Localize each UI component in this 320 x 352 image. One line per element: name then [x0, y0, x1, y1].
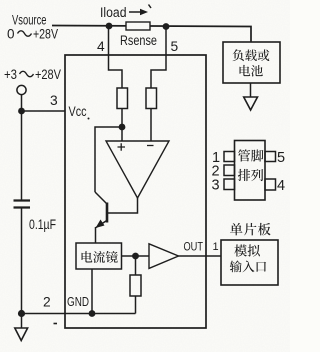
MCU analog input box — [221, 240, 278, 285]
transistor Q1 — [106, 203, 109, 223]
artifact tick — [149, 5, 152, 9]
wire: pin 4 to R1 — [109, 26, 123, 88]
pin 3 pad — [224, 179, 235, 190]
label shurukou — [230, 260, 242, 272]
node: Rsense right junction — [163, 23, 170, 30]
wire: load box to ground — [250, 83, 252, 97]
label danpianban — [230, 223, 243, 235]
resistor Rsense — [126, 22, 150, 30]
IC boundary box U1 — [65, 55, 206, 328]
load/battery box — [223, 42, 280, 83]
label moni — [234, 244, 247, 256]
pin 2 pad — [224, 165, 235, 176]
node: Vcc branch — [18, 108, 25, 115]
ground symbol left — [15, 328, 28, 341]
artifact dash — [54, 323, 58, 325]
wire: OUT pin 1 — [179, 255, 222, 257]
wire: terminal to node — [21, 95, 23, 111]
label dianchi — [240, 65, 251, 76]
wire: capacitor to ground rail — [21, 209, 23, 314]
resistor R2 — [146, 88, 157, 109]
label guanjiao — [238, 149, 250, 161]
current mirror box — [76, 243, 122, 269]
buffer amp U1B — [149, 244, 179, 269]
wire: R3 to GND rail — [135, 296, 137, 314]
pin 5 pad — [265, 152, 276, 162]
capacitor C1 plates — [14, 199, 31, 201]
ground symbol load — [244, 97, 258, 110]
node: ground junction — [18, 310, 25, 317]
pin 4 pad — [265, 179, 276, 190]
label pailie — [238, 169, 250, 181]
wire: R1 to op-amp + input — [121, 109, 123, 142]
wire: stub to ground symbol — [21, 314, 23, 329]
wire: collector to + input node — [95, 127, 122, 192]
op-amp U1A — [106, 141, 169, 198]
wire: node down to R3 — [135, 256, 137, 275]
wire: node down to capacitor — [21, 111, 23, 200]
pin 1 pad — [224, 152, 235, 162]
wire: Vsource supply rail to load — [52, 26, 251, 43]
wire: GND rail to pin 2 — [22, 313, 136, 315]
wire: mirror bottom to GND rail — [91, 269, 93, 314]
terminal circle — [17, 85, 26, 94]
resistor R3 — [130, 275, 141, 296]
label fuzai huo — [233, 49, 244, 61]
node: + input / collector junction — [119, 124, 126, 131]
resistor R1 — [117, 88, 128, 109]
wire: R2 to op-amp - input — [150, 109, 152, 142]
wire: emitter to current mirror — [95, 227, 97, 243]
node: mirror ground junction — [89, 310, 96, 317]
paper texture — [0, 0, 1, 1]
wire: mirror out to buffer — [122, 255, 150, 257]
wire: op-amp output to Q1 base — [108, 198, 138, 213]
IC package outline — [235, 141, 266, 201]
wire: pin 5 to R2 — [151, 27, 166, 89]
label dianliujing — [82, 251, 93, 262]
node: buffer input junction — [132, 253, 139, 260]
node: Rsense left junction — [106, 23, 113, 30]
wire: pin 3 into box — [22, 110, 66, 112]
